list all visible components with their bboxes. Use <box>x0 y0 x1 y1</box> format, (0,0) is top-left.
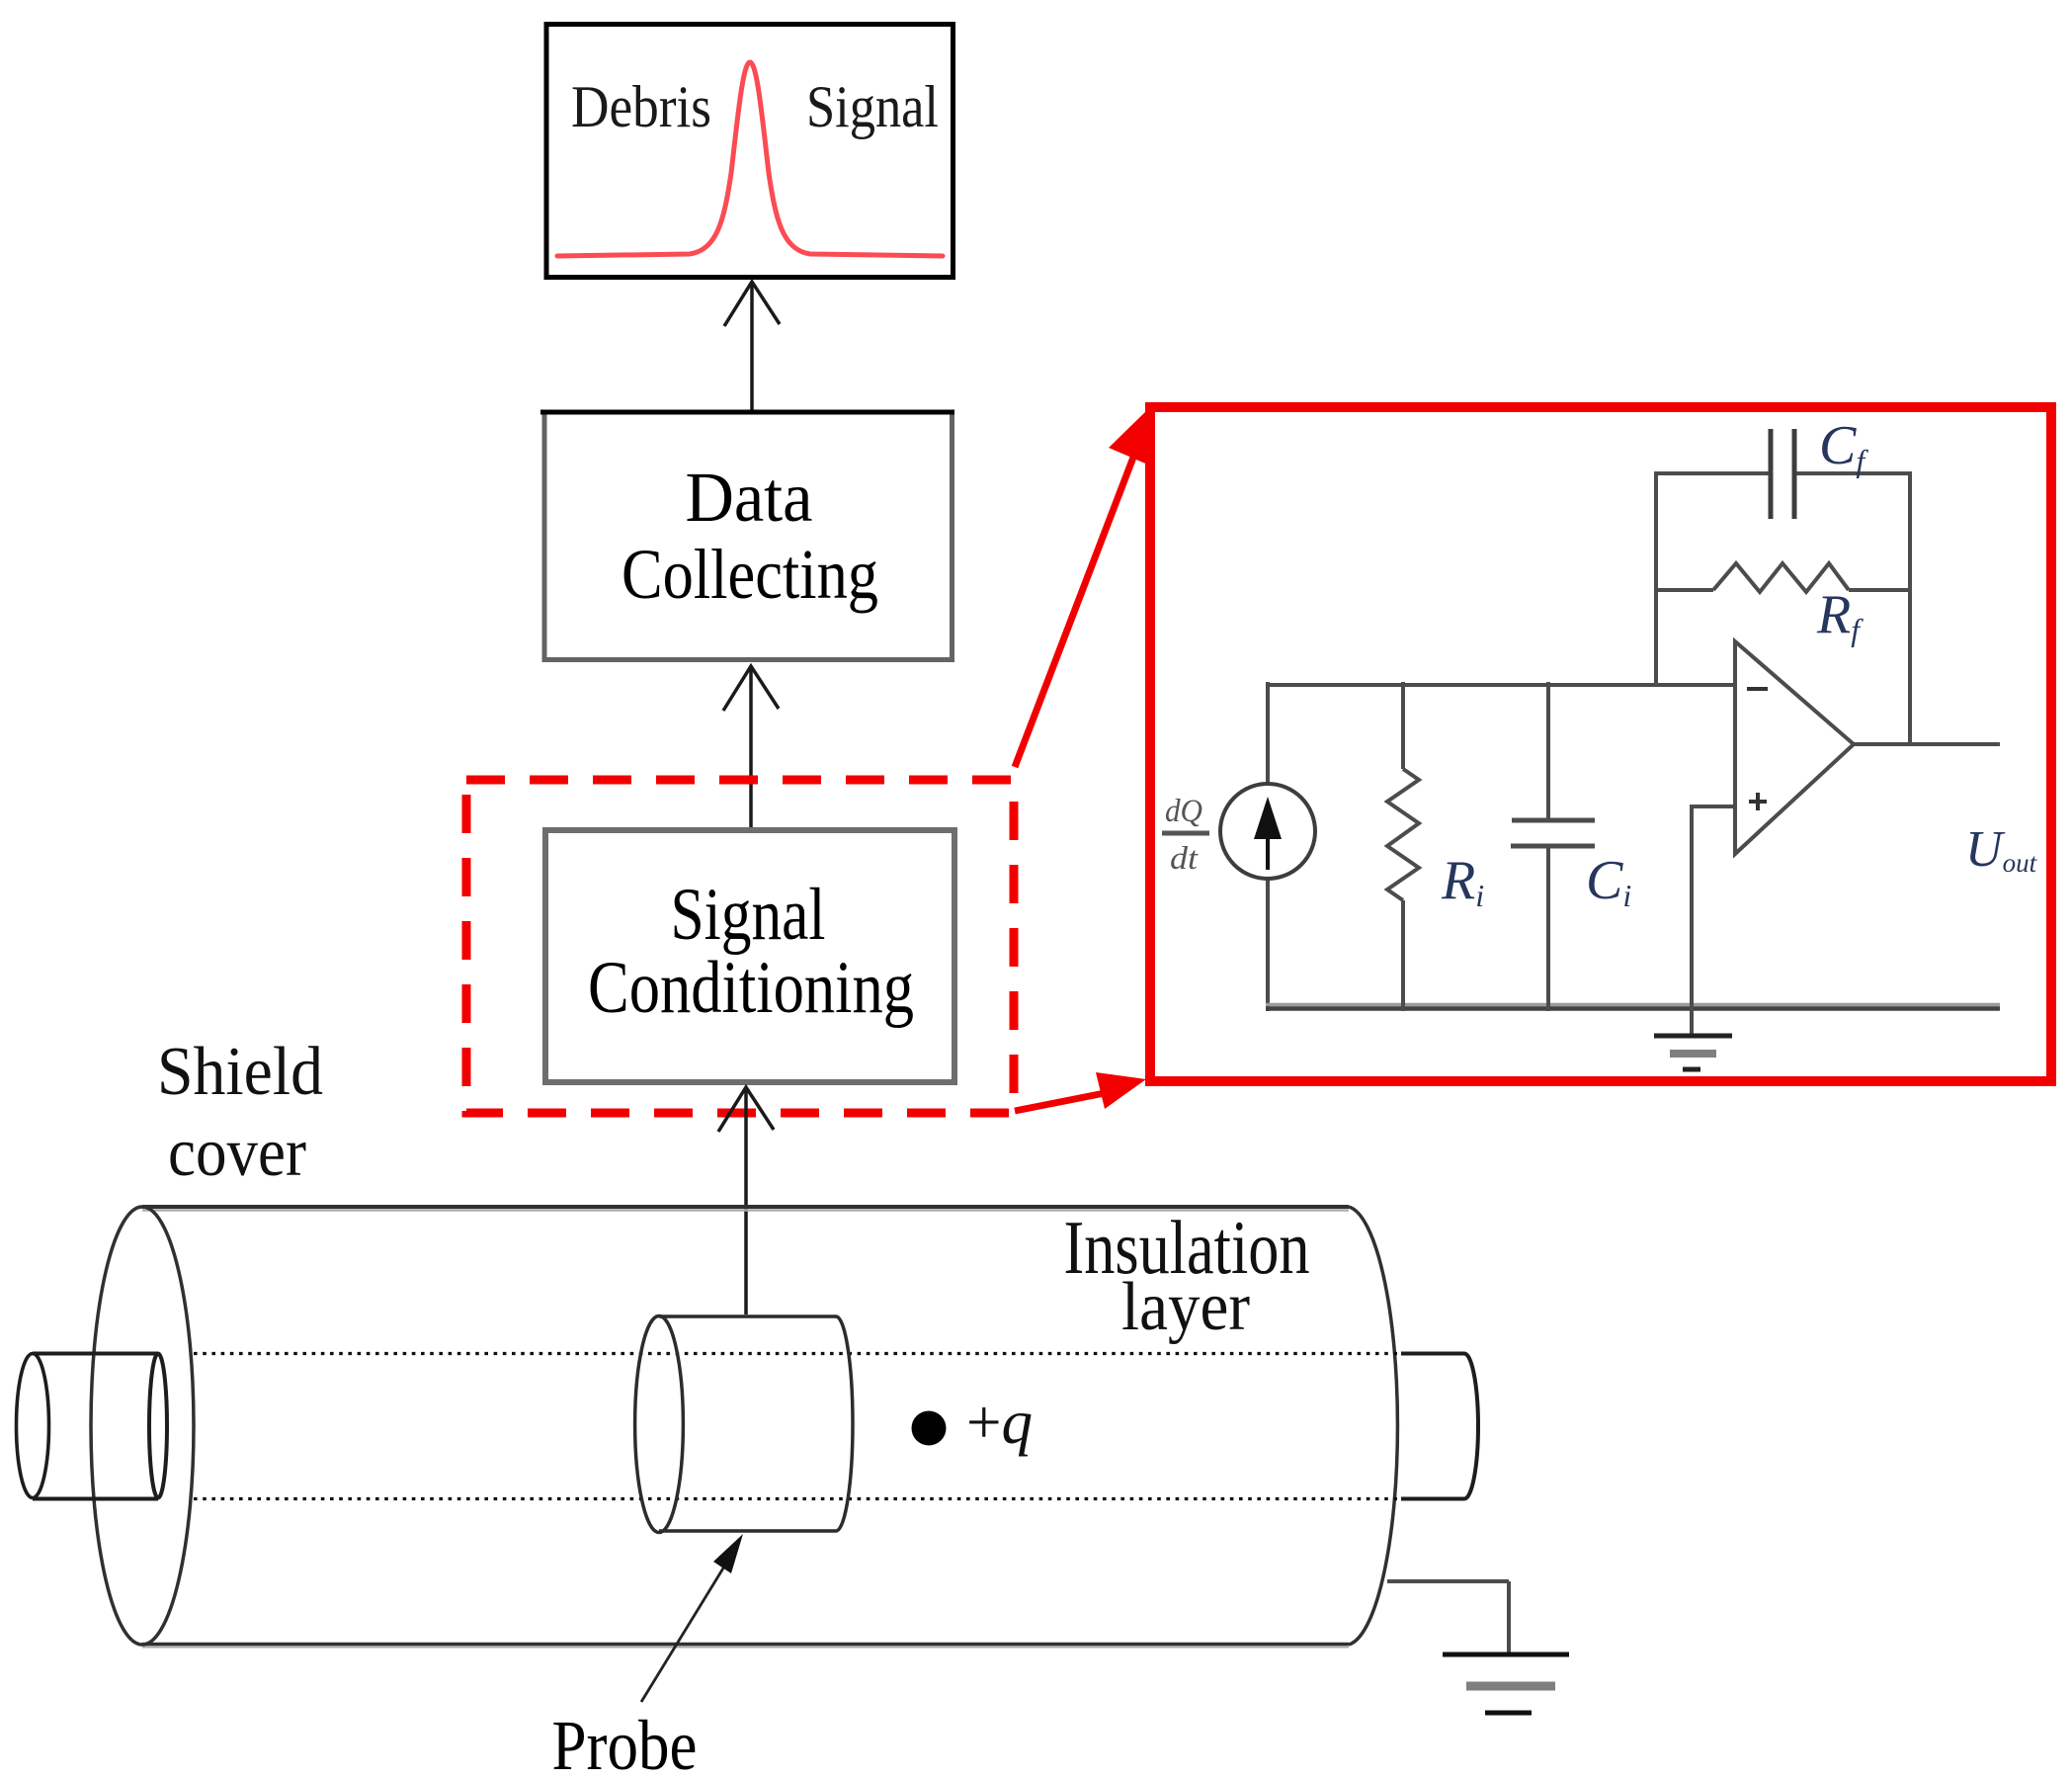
wire: feedback to output node <box>1908 471 1912 746</box>
label dQ/dt <box>1162 794 1209 877</box>
ground (op-amp) <box>1654 1036 1732 1069</box>
wire: current source top lead <box>1266 682 1270 784</box>
block Signal Conditioning <box>545 830 954 1082</box>
wire: + input to ground <box>1690 805 1694 1036</box>
op-amp U1 <box>1735 641 1854 854</box>
wire: Ri top lead <box>1401 682 1405 769</box>
red dashed highlight box <box>466 780 1014 1113</box>
svg-text:Shield: Shield <box>157 1034 323 1110</box>
wire: Ci bottom lead <box>1546 848 1550 1011</box>
wire: Cf left lead <box>1654 471 1769 475</box>
red callout arrow lower <box>1015 1072 1146 1111</box>
resistor Rf <box>1713 563 1849 592</box>
capacitor Cf <box>1771 429 1794 519</box>
probe cylinder <box>635 1316 853 1533</box>
wire: feedback tap from input node <box>1654 471 1658 686</box>
scope box Debris Signal <box>546 25 953 278</box>
red callout arrow upper <box>1015 408 1150 767</box>
right shaft cylinder <box>1401 1354 1478 1499</box>
insulation layer label <box>1064 1205 1310 1345</box>
wire arrow from Data Collecting to scope box <box>724 282 780 411</box>
svg-text:Collecting: Collecting <box>622 535 878 614</box>
op-amp inverting input marker - <box>1747 687 1768 691</box>
wire: current source bottom lead <box>1266 879 1270 1011</box>
svg-text:+q: +q <box>966 1388 1033 1457</box>
svg-text:dt: dt <box>1170 841 1199 877</box>
op-amp non-inverting input marker + <box>1749 793 1767 810</box>
svg-text:Data: Data <box>686 458 813 537</box>
probe pointer arrow <box>641 1534 743 1702</box>
svg-text:Debris: Debris <box>571 74 711 139</box>
op-amp output wire <box>1854 742 2000 746</box>
wire: Ri bottom lead <box>1401 900 1405 1011</box>
capacitor Ci <box>1511 820 1595 846</box>
svg-text:cover: cover <box>168 1115 306 1191</box>
wire: Rf right lead <box>1849 588 1910 592</box>
current source dQ/dt <box>1220 784 1315 879</box>
left shaft cylinder <box>17 1354 168 1499</box>
node GND: bottom ground net wire <box>1266 1005 2000 1009</box>
block Data Collecting <box>540 412 954 660</box>
charge +q <box>912 1388 1034 1457</box>
debris signal pulse curve <box>557 62 943 256</box>
svg-text:Conditioning: Conditioning <box>588 947 914 1029</box>
svg-text:Probe: Probe <box>552 1706 698 1780</box>
svg-text:Signal: Signal <box>806 74 939 139</box>
svg-text:layer: layer <box>1121 1269 1250 1345</box>
wire: Cf right lead <box>1795 471 1912 475</box>
node A: input net wire (source to op-amp inverting input) <box>1268 683 1735 687</box>
wire: + input horizontal lead <box>1690 805 1735 808</box>
red circuit inset box <box>1150 407 2051 1081</box>
wire: Rf left lead <box>1656 588 1713 592</box>
wire: Ci top lead <box>1546 682 1550 818</box>
axis dotted lines <box>194 1354 1401 1499</box>
svg-text:dQ: dQ <box>1165 794 1202 829</box>
shield cover label <box>157 1034 323 1191</box>
wire arrow from probe to Signal Conditioning <box>718 1087 774 1314</box>
svg-text:Signal: Signal <box>671 874 826 956</box>
cylinder ground wire <box>1387 1581 1509 1654</box>
shield cylinder body <box>91 1207 1397 1648</box>
wire arrow from Signal Conditioning to Data Collecting <box>723 666 779 830</box>
resistor Ri <box>1387 769 1419 900</box>
ground (shield) <box>1443 1654 1569 1713</box>
